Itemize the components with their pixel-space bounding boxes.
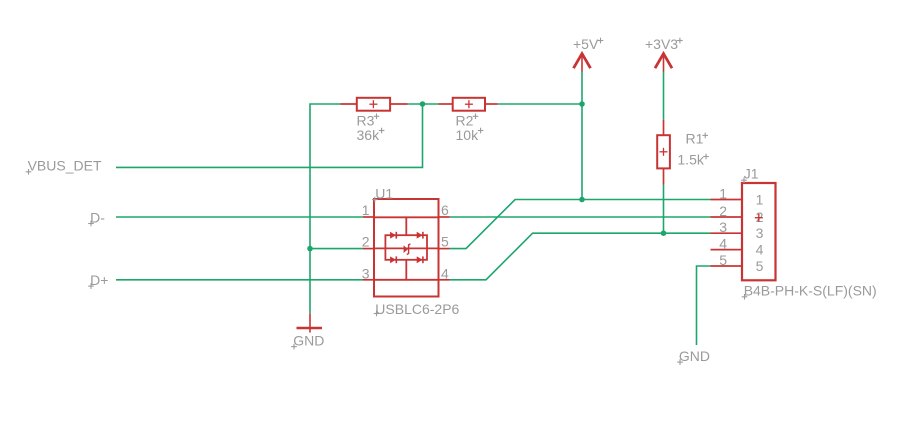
svg-text:GND: GND — [679, 348, 710, 364]
diode D top-right — [417, 232, 423, 239]
resistor R2 — [439, 98, 498, 111]
svg-text:5: 5 — [756, 258, 764, 274]
svg-text:5: 5 — [719, 252, 727, 268]
svg-text:B4B-PH-K-S(LF)(SN): B4B-PH-K-S(LF)(SN) — [744, 283, 877, 299]
J1 pin 2 — [711, 216, 743, 218]
svg-text:4: 4 — [441, 265, 449, 281]
wire R2 right to +5V node — [498, 103, 583, 105]
J1 origin cross — [755, 214, 763, 222]
svg-text:1: 1 — [756, 192, 764, 208]
junction +5V-J1pin1 — [579, 197, 585, 203]
svg-text:3: 3 — [719, 219, 727, 235]
svg-text:VBUS_DET: VBUS_DET — [28, 158, 102, 174]
wire R3 left to GND vertical — [310, 104, 341, 313]
svg-text:3: 3 — [362, 265, 370, 281]
U1 pin 2 — [363, 248, 374, 250]
net D+ wire — [116, 279, 363, 281]
junction R3-GND-U1pin2 — [307, 246, 313, 252]
wire R3 right to R2 left — [408, 103, 439, 105]
svg-text:USBLC6-2P6: USBLC6-2P6 — [375, 301, 459, 317]
wire U1 pin6 to J1 pin2 — [450, 216, 711, 218]
wire J1 pin5 to GND — [697, 266, 711, 345]
svg-text:2: 2 — [719, 203, 727, 219]
wire U1 pin5 to J1 pin1 — [450, 200, 711, 249]
svg-text:+5V: +5V — [573, 36, 599, 52]
+3V3 supply symbol — [655, 54, 672, 72]
wire +5V vertical — [581, 72, 583, 200]
J1 pin 4 — [711, 249, 743, 251]
diode D bottom-right — [417, 256, 423, 263]
zener diode center — [404, 244, 411, 255]
svg-text:4: 4 — [719, 236, 727, 252]
resistor R1 — [657, 120, 670, 185]
svg-text:3: 3 — [756, 225, 764, 241]
U1 pin 1 — [363, 216, 374, 218]
J1 pin 1 — [711, 199, 743, 201]
svg-text:U1: U1 — [375, 186, 393, 202]
svg-text:1: 1 — [719, 186, 727, 202]
wire node to U1 pin2 — [310, 248, 363, 250]
svg-text:+3V3: +3V3 — [645, 36, 678, 52]
svg-text:5: 5 — [441, 234, 449, 250]
ground symbol left — [297, 313, 323, 332]
svg-text:D-: D- — [90, 209, 105, 225]
junction R2-+5V — [579, 101, 585, 107]
svg-text:6: 6 — [441, 202, 449, 218]
svg-text:J1: J1 — [744, 166, 759, 182]
svg-text:D+: D+ — [90, 272, 108, 288]
svg-text:2: 2 — [362, 234, 370, 250]
diode D top-left — [390, 232, 396, 239]
U1 pin 3 — [363, 279, 374, 281]
svg-text:1.5k: 1.5k — [677, 152, 704, 168]
+5V supply symbol — [574, 54, 591, 72]
U1 pin 6 — [439, 216, 450, 218]
IC U1 USBLC6-2P6 body — [374, 199, 439, 297]
connector J1 body — [742, 183, 776, 280]
svg-text:R1: R1 — [686, 130, 704, 146]
U1 pin 4 — [439, 279, 450, 281]
svg-text:1: 1 — [362, 202, 370, 218]
wire U1 pin4 to J1 pin3 — [450, 233, 711, 280]
J1 pin 5 — [711, 265, 743, 267]
svg-text:4: 4 — [756, 242, 764, 258]
wire R1 bottom to D+ node — [663, 185, 665, 234]
junction R1-J1pin3 — [661, 230, 667, 236]
svg-text:36k: 36k — [357, 127, 381, 143]
net D- wire — [116, 216, 363, 218]
diode D bottom-left — [390, 256, 396, 263]
svg-text:GND: GND — [293, 333, 324, 349]
J1 pin 3 — [711, 232, 743, 234]
wire +3V3 to R1 top — [663, 72, 665, 120]
net VBUS_DET wire — [116, 104, 423, 167]
resistor R3 — [341, 98, 408, 111]
junction R3-R2-VBUS_DET — [420, 101, 426, 107]
svg-text:10k: 10k — [456, 127, 480, 143]
U1 pin 5 — [439, 248, 450, 250]
